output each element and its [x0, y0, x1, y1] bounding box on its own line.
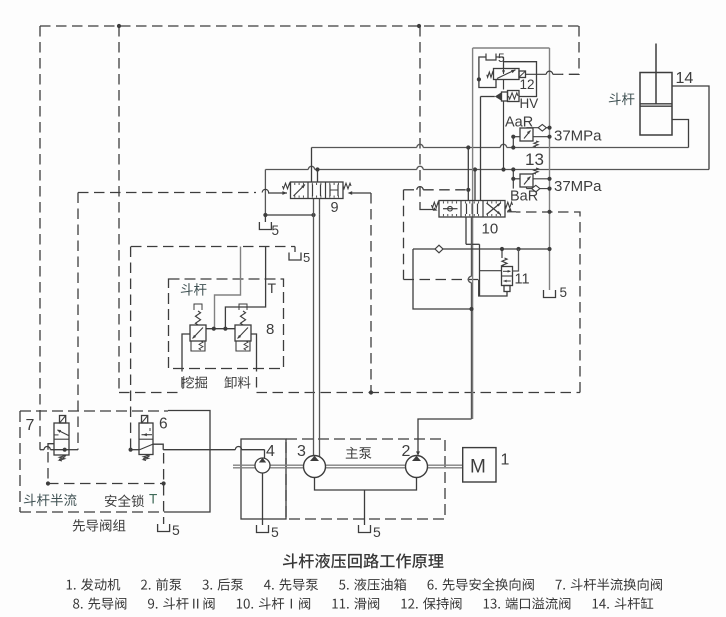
svg-text:HV: HV	[520, 96, 539, 111]
node junction at (163.6,483.5)	[162, 481, 166, 485]
label safety lock	[105, 495, 144, 508]
label arm half flow	[24, 494, 77, 506]
svg-text:12: 12	[520, 77, 535, 92]
check valve diamond	[435, 245, 443, 253]
wire pilot dashed y=279.5 to slide valve 11 loop	[404, 279, 479, 281]
wire main line B (rod side) y=169.5	[265, 169, 308, 171]
wire AaR vertical x=513.3	[512, 137, 514, 148]
wire valve 11 right port	[513, 249, 519, 271]
valve 9 internal ticks	[294, 183, 296, 185]
wire AaR output y=136.7	[533, 136, 550, 138]
wire dashed drain x=163.6 to tank	[163, 453, 165, 524]
wire dump output solid	[251, 334, 257, 361]
spring valve 6 bottom	[143, 455, 148, 461]
wire valve 12 output to right	[526, 73, 547, 75]
svg-text:5: 5	[172, 522, 180, 538]
wire enclosure top y=48	[473, 47, 550, 49]
svg-text:14: 14	[676, 70, 694, 87]
wire pilot dashed corner to valve 12 right	[562, 26, 579, 74]
wire dump pilot output dashed x=256.5	[256, 361, 258, 393]
node junction A-line at (468.3,147.5)	[466, 145, 470, 149]
node junction at (549.5,127.7)	[547, 126, 551, 130]
wire dashed below valve 7	[47, 452, 49, 484]
check valve HV holding valve	[495, 92, 502, 101]
label legend line 2	[73, 597, 653, 610]
label main pump	[346, 447, 372, 459]
wire bar between reducing valves	[206, 328, 235, 330]
wire main line A (bottom of cylinder) y=147.5	[312, 147, 417, 149]
node junction at (502,249)	[500, 247, 504, 251]
wire tank drop from B-line x=265.4	[264, 170, 266, 216]
wire pilot dashed right vertical x=580 to valve 10 right pilot	[516, 212, 580, 393]
valve V6 safety lock solenoid valve	[139, 423, 153, 455]
node junction at (518.5,249)	[516, 247, 520, 251]
wire pilot dig net top horizontal dashed	[40, 25, 579, 27]
svg-text:5: 5	[303, 250, 310, 265]
svg-text:11: 11	[515, 272, 530, 288]
label legend line 1	[67, 578, 662, 590]
wire valve 7 through line	[40, 449, 44, 451]
wire BaR output y=188.6 with pilot diamond	[526, 187, 528, 189]
wire BaR output y=178.8	[533, 178, 550, 180]
pump P3 rear pump	[304, 456, 326, 478]
wire BaR vertical x=513.3	[512, 170, 514, 189]
tank 5 pilot pump	[257, 525, 269, 533]
node junction at (371,392.5)	[369, 390, 373, 394]
tank 5 on line x=549.5	[544, 290, 556, 298]
box pilot valve 8 dashed enclosure	[169, 279, 284, 369]
svg-text:AaR: AaR	[505, 115, 533, 131]
solenoid valve 12 right	[519, 71, 526, 78]
wire valve 9 top stub to B-line	[317, 170, 319, 183]
wire pilot dashed left vertical x=40 to valve 7	[39, 26, 41, 450]
wire x=479.5 down to slide valve 11	[479, 244, 481, 296]
spring valve 10 left	[432, 202, 440, 208]
spring valve 9 right	[343, 183, 351, 189]
wire gray arm pilot feed	[215, 247, 241, 329]
valve V10 arm I directional valve body	[439, 201, 505, 218]
wire cylinder rod port hook	[672, 86, 709, 170]
label dig	[181, 376, 207, 389]
wire dig output solid	[182, 334, 190, 361]
tank 5 under valve 9	[264, 215, 266, 222]
label arm in pilot valve 8	[181, 283, 207, 295]
node junction at (468.3,189.8)	[466, 188, 470, 192]
node junction at (549.5,249)	[547, 247, 551, 251]
pin valve 9 left pilot arrow	[268, 192, 287, 194]
svg-text:10: 10	[482, 221, 499, 238]
valve V9 arm II directional valve body	[291, 182, 344, 199]
box main pump dashed enclosure	[286, 439, 445, 519]
wire motor shaft double line	[233, 464, 463, 466]
wire valve 11 bottom loop	[479, 280, 507, 297]
wire pump 4 feed from valve 6	[264, 450, 266, 459]
wire y=244.3 stub	[466, 243, 480, 245]
valve 10 left cell check symbol	[443, 208, 458, 210]
solenoid valve 6 top	[142, 416, 148, 424]
svg-text:5: 5	[373, 524, 381, 540]
svg-text:8: 8	[266, 321, 274, 338]
spring valve 12 left	[487, 72, 494, 77]
svg-text:6: 6	[159, 416, 168, 433]
wire suction drop to tank	[364, 490, 366, 525]
wire cylinder bottom port hook	[672, 120, 689, 148]
svg-text:7: 7	[26, 417, 35, 434]
node junction B-line at (475,169.5)	[473, 167, 477, 171]
node junction at (471.5,309)	[469, 307, 473, 311]
wire check line y=249	[413, 248, 435, 250]
wire valve 6 output step	[153, 444, 164, 450]
spring valve 10 right	[505, 202, 513, 208]
wire riser x=480.5 HV to valve 10	[480, 97, 482, 201]
wire pilot dashed vertical x=420 to valve 10 left pilot	[419, 26, 421, 206]
wire pump 2 riser bottom to pump	[418, 419, 472, 453]
valve 11 bottom pilot box	[504, 286, 510, 292]
valve 9 left cell diagonal	[294, 185, 306, 197]
wire pilot dashed y=192.5 to valve 9 left pilot	[78, 192, 256, 194]
spring valve 7 bottom	[59, 455, 64, 461]
valve 9 right cell bars	[329, 185, 331, 197]
wire valve 7 right port	[69, 449, 78, 451]
wire AaR output y=127.7 with pilot diamond	[526, 127, 528, 129]
solenoid valve 7 top	[60, 416, 66, 424]
svg-text:5: 5	[272, 223, 280, 238]
wire HV left to valve 10 A riser	[481, 96, 495, 98]
svg-text:9: 9	[331, 200, 339, 216]
svg-text:T: T	[149, 492, 157, 507]
motor M1 box	[463, 448, 496, 482]
wire tank line x=549.5	[549, 48, 551, 290]
node junction at (130.6,449.7)	[129, 448, 133, 452]
svg-text:37MPa: 37MPa	[554, 178, 602, 195]
node junction valve 12 left (478.9,79.4)	[477, 77, 481, 81]
wire tank to valve 12 top	[496, 56, 504, 58]
node junction at (119,26)	[117, 24, 121, 28]
wire valve 11 left port	[480, 270, 502, 272]
pump P4 pilot pump	[255, 458, 270, 473]
wire suction manifold pumps 2-3	[315, 478, 417, 491]
wire T pilot feed	[225, 247, 265, 329]
wire valve 9 top stub to A-line	[311, 148, 313, 183]
valve 12 internal flow arrow	[497, 70, 516, 79]
node junction at (513.3,136.7)	[511, 135, 515, 139]
wire pilot dashed vertical x=119	[118, 26, 120, 393]
svg-text:1: 1	[501, 452, 510, 469]
wire valve 10 bottom stub x=466	[465, 217, 467, 244]
wire valve 6 left port	[131, 449, 139, 451]
box safety-lock solid enclosure	[166, 411, 210, 513]
node junction at (549.5,211.8)	[547, 210, 551, 214]
tank 5 main	[359, 525, 371, 533]
wire pilot dashed branch x=403.5 near valve 10	[403, 190, 405, 280]
box around valve 12 label	[504, 62, 537, 97]
spring valve 9 left	[283, 183, 291, 189]
wire pilot dashed vertical x=78 from valve 7 out	[77, 193, 79, 450]
valve 10 middle cell bars	[466, 204, 468, 215]
wire dig pilot output dashed x=182	[181, 361, 183, 393]
pin valve 9 right pilot arrow	[352, 192, 371, 194]
svg-text:37MPa: 37MPa	[554, 128, 602, 145]
svg-text:4: 4	[266, 443, 275, 460]
tank 5 above valve 12	[479, 57, 486, 79]
valve 9 middle cell bars	[312, 185, 314, 197]
label arm	[609, 93, 635, 105]
wire valve 10 A stub x=468.3	[467, 148, 469, 201]
pin valve 10 left pilot arrow	[431, 209, 436, 211]
wire U loop x=413	[413, 249, 472, 309]
node junction at (313.5,215)	[311, 213, 315, 217]
wire left reducing valve lower loop with spring	[191, 341, 205, 351]
cylinder 14 piston	[640, 103, 672, 105]
label dump	[224, 376, 250, 388]
svg-text:3: 3	[297, 443, 306, 460]
wire valve 9 tank stub y=215	[265, 214, 313, 216]
wire pilot rail dashed y=483.5 in pilot valve group	[48, 483, 164, 485]
wire x=503.5 valve 12 to B-line	[503, 80, 505, 90]
wire pilot dashed from valve 9 right pilot down	[370, 193, 372, 393]
svg-text:T: T	[268, 280, 277, 296]
node junction at (513.3,178.8)	[511, 177, 515, 181]
relief valve AaR	[513, 136, 520, 138]
box pilot valve group dashed enclosure	[20, 410, 168, 412]
pump P2 front pump	[406, 456, 428, 478]
wire pump 4 drain	[262, 473, 264, 525]
node junction at (64.7,449.7)	[63, 448, 67, 452]
wire pump 3 riser double line	[313, 199, 315, 457]
valve V11 slide valve body	[501, 249, 503, 258]
svg-text:5: 5	[271, 524, 279, 540]
node junction at (419,26)	[417, 24, 421, 28]
pressure reducing valve right (dump)	[235, 325, 251, 341]
node junction at (549.5,188.6)	[547, 187, 551, 191]
pin valve 10 right pilot arrow	[507, 208, 512, 212]
label title	[283, 553, 444, 568]
wire valve 7 left step	[48, 444, 54, 450]
label pilot valve group	[73, 519, 126, 531]
svg-text:2: 2	[402, 443, 411, 460]
node junction at (549.5,136.7)	[547, 135, 551, 139]
valve 10 right cell crossing	[487, 203, 501, 215]
wire pump 2 pressure riser x=472.6	[472, 48, 474, 419]
wire pilot dashed vertical x=130.6 valve 6 left port	[130, 247, 132, 450]
wire pilot dump net dashed bottom y=392.5	[119, 392, 182, 394]
node junction B-line at (317.5,169.5)	[315, 167, 319, 171]
valve U12 2/2 solenoid valve body	[494, 69, 520, 80]
cylinder 14 arm cylinder body	[640, 73, 672, 136]
svg-text:5: 5	[560, 285, 568, 300]
wire valve 10 B stub x=475	[474, 170, 476, 201]
pin arrow into pump 2	[416, 451, 420, 456]
svg-text:M: M	[470, 457, 486, 478]
node junction at (225.4,328.7)	[223, 327, 227, 331]
tank 5 pilot group	[158, 524, 170, 532]
node junction B-line at (513.3,169.5)	[511, 167, 515, 171]
wire valve 6 output to pilot pump	[163, 449, 235, 451]
wire pilot tank dashed line y=246.5	[131, 246, 295, 248]
relief valve BaR	[513, 178, 520, 180]
wire pilot dashed y=189.8	[404, 189, 417, 191]
node junction at (265.4,215)	[263, 213, 267, 217]
wire pump2 line below valve 10 x=471.5	[471, 217, 473, 276]
node junction A-line at (513.3,147.5)	[511, 145, 515, 149]
box pilot pump solid enclosure	[241, 439, 286, 519]
pressure reducing valve left (dig)	[190, 325, 206, 341]
wire right reducing valve lower loop with spring	[236, 341, 250, 351]
valve V7 arm half-flow solenoid valve	[54, 423, 69, 455]
node junction at (549.5,178.8)	[547, 177, 551, 181]
wire loop under valve 12 spring	[479, 79, 496, 87]
svg-text:13: 13	[525, 150, 544, 169]
valve 10 internal ticks	[442, 201, 444, 203]
tank 5 pilot drain at (295,252)	[289, 253, 301, 261]
cylinder 14 rod	[655, 44, 657, 104]
svg-text:BaR: BaR	[510, 189, 538, 205]
node junction at (213.8,328.7)	[212, 327, 216, 331]
node junction B-line at (503.5,169.5)	[501, 167, 505, 171]
